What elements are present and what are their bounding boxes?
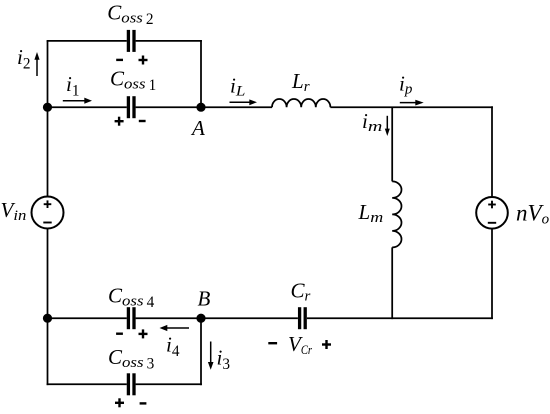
current arrow iL [230,99,258,105]
wire main top left segment [48,106,127,108]
wire top Coss2 branch left [47,40,127,42]
svg-text:i1: i1 [66,72,80,100]
svg-text:VCr: VCr [288,332,312,357]
svg-text:iL: iL [230,74,245,100]
capacitor Coss3 [128,373,134,395]
capacitor Coss4 [128,307,134,329]
source Vin [32,197,64,229]
wire main top middle segment [136,106,272,108]
wire left rail upper [47,41,49,197]
svg-text:Coss 3: Coss 3 [108,345,155,373]
Vin minus sign [43,222,51,224]
svg-text:im: im [362,109,383,135]
node B [196,314,205,323]
current arrow i3 [208,342,214,370]
current arrow ip [400,100,424,106]
wire Coss2 branch vertical down to node A [200,40,202,107]
wire right rail lower [491,229,493,320]
wire main top right segment [330,106,493,108]
current arrow i2 [34,52,39,76]
svg-text:Coss 2: Coss 2 [107,1,153,29]
polarity Coss4 minus [116,333,123,335]
wire bottom Coss3 branch left [47,383,127,385]
wire im branch lower [391,247,393,319]
polarity VCr plus [322,340,331,349]
capacitor Coss1 [128,96,134,118]
svg-text:A: A [190,116,205,140]
source nVo [476,197,508,229]
polarity Coss2 plus [139,56,148,65]
wire bottom main right segment [307,317,493,319]
svg-text:nVo: nVo [516,201,550,228]
wire right rail upper [491,106,493,197]
wire bottom main middle segment [136,317,298,319]
node junction left top [43,103,52,112]
wire bottom Coss3 branch right [136,383,202,385]
svg-text:Vin: Vin [1,198,27,224]
wire im branch upper [391,107,393,181]
polarity VCr minus [268,342,277,344]
svg-text:Coss 1: Coss 1 [110,67,156,95]
svg-text:Cr: Cr [291,278,311,304]
polarity Coss1 minus [139,120,146,122]
capacitor Coss2 [128,30,134,52]
nVo plus sign [488,201,496,209]
inductor Lm [392,181,401,247]
current arrow im [385,116,390,136]
svg-text:Lr: Lr [291,69,310,95]
svg-text:i2: i2 [17,45,31,73]
polarity Coss2 minus [116,59,123,61]
Vin plus sign [44,200,52,208]
svg-text:Coss 4: Coss 4 [108,284,155,312]
current arrow i4 [160,325,190,331]
wire left rail lower [47,228,49,385]
inductor Lr [272,99,330,107]
svg-text:B: B [198,287,211,311]
nVo minus sign [488,222,496,224]
polarity Coss3 plus [115,398,124,407]
svg-text:i4: i4 [166,333,180,361]
wire top Coss2 branch right [136,40,202,42]
wire B down to Coss3 branch [200,318,202,385]
polarity Coss4 plus [139,329,148,338]
svg-text:ip: ip [399,72,413,98]
svg-text:i3: i3 [217,346,231,374]
current arrow i1 [63,98,92,104]
wire bottom main left segment [48,317,127,319]
polarity Coss1 plus [115,117,124,126]
node A [196,103,205,112]
polarity Coss3 minus [140,402,147,404]
capacitor Cr [300,307,306,329]
svg-text:Lm: Lm [358,200,384,226]
node junction left bottom [43,314,52,323]
